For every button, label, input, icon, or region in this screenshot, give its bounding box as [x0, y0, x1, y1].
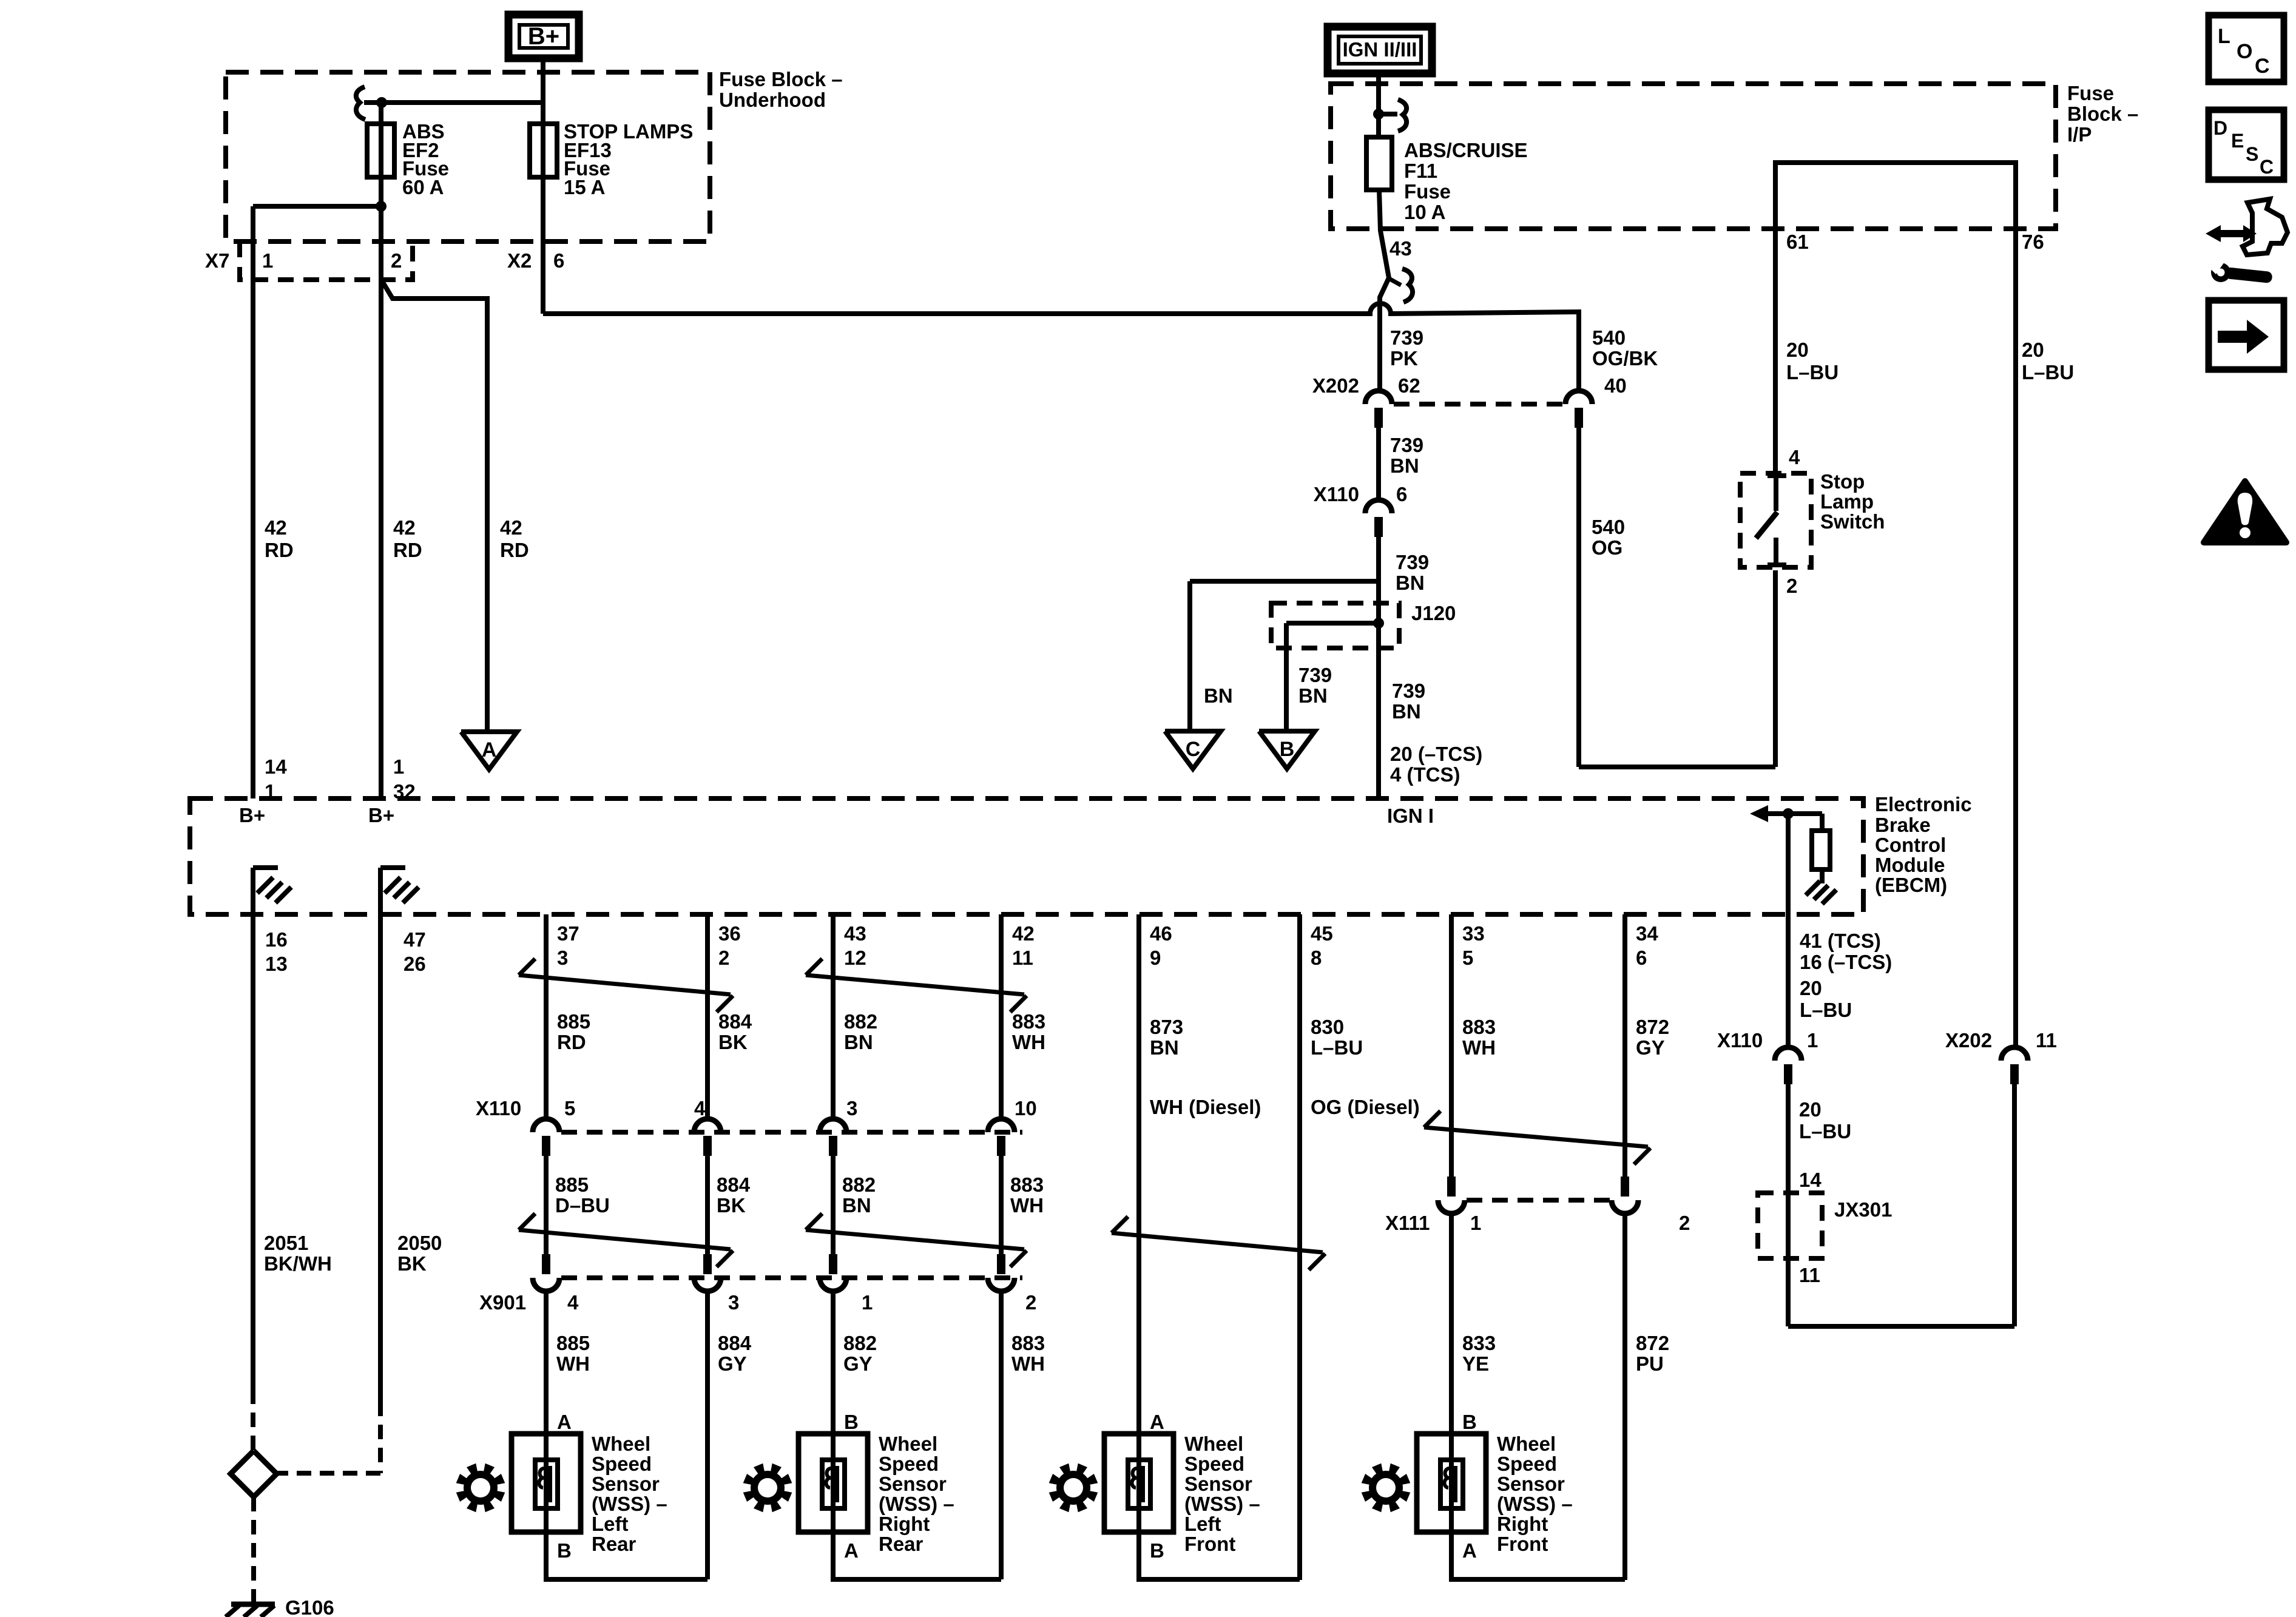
label WH (Diesel) [1150, 1096, 1261, 1118]
svg-text:873: 873 [1150, 1016, 1183, 1038]
svg-text:885: 885 [555, 1173, 589, 1196]
svg-text:E: E [2231, 130, 2244, 152]
svg-text:60 A: 60 A [402, 176, 444, 198]
svg-text:BK: BK [718, 1031, 748, 1053]
svg-text:6: 6 [553, 249, 564, 272]
svg-text:X110: X110 [476, 1097, 521, 1119]
power terminal IGN II/III [1328, 27, 1432, 73]
icon warning triangle [2204, 481, 2286, 542]
label 42 RD wire2 [393, 516, 422, 561]
wire splice to G106 [251, 1497, 256, 1602]
connector X111 pin2 [1612, 1176, 1638, 1214]
svg-text:Wheel: Wheel [1497, 1433, 1556, 1455]
label 885 RD upper [557, 1010, 590, 1053]
label 885 WH lower [556, 1332, 590, 1375]
svg-text:X7: X7 [205, 249, 229, 272]
svg-text:883: 883 [1462, 1016, 1496, 1038]
wire I/P internal bus [1775, 163, 2016, 229]
label 873 BN [1150, 1016, 1183, 1059]
connector X901 at x1373 [820, 1254, 846, 1291]
svg-text:10: 10 [1015, 1097, 1037, 1119]
svg-text:20: 20 [1786, 339, 1809, 361]
label 739 BN lower [1392, 680, 1425, 723]
svg-text:F11: F11 [1404, 160, 1437, 182]
wire branch to pin X7-1 [253, 206, 381, 798]
label EBCM pin 33/5 [1462, 922, 1485, 969]
label X110 pin 10 [1015, 1097, 1037, 1119]
svg-text:76: 76 [2022, 231, 2044, 253]
svg-text:882: 882 [842, 1173, 876, 1196]
svg-text:OG/BK: OG/BK [1592, 347, 1658, 370]
svg-text:C: C [1186, 738, 1201, 761]
label 883 WH upper [1012, 1010, 1045, 1053]
svg-text:B: B [1150, 1539, 1164, 1562]
label 830 L-BU [1311, 1016, 1363, 1059]
label 540 OG/BK [1592, 326, 1658, 370]
svg-text:RD: RD [500, 539, 529, 561]
connector line X110 rear [561, 1130, 1022, 1135]
label 884 GY lower [718, 1332, 752, 1375]
label X110 pin1 row [1717, 1029, 1763, 1052]
EBCM internal ground 16/13 [253, 868, 291, 914]
svg-text:11: 11 [2036, 1029, 2057, 1052]
svg-text:Sensor: Sensor [1497, 1473, 1565, 1495]
wire branch C [1190, 581, 1379, 731]
svg-text:883: 883 [1011, 1332, 1045, 1354]
svg-text:IGN I: IGN I [1387, 805, 1434, 827]
svg-text:OG (Diesel): OG (Diesel) [1311, 1096, 1420, 1118]
bus-bar symbol EF2 [356, 87, 365, 120]
wire rear WSS x1650 mid [999, 1153, 1004, 1258]
svg-text:X110: X110 [1717, 1029, 1763, 1052]
connector X202 pin 62 [1365, 391, 1392, 428]
label IGN I [1387, 805, 1434, 827]
label pin 61 [1786, 231, 1809, 253]
svg-text:4: 4 [1789, 446, 1800, 468]
wire 883 WH riser rear [999, 1291, 1004, 1579]
EBCM internal ground 47/26 [380, 868, 419, 914]
connector line X111 [1467, 1198, 1610, 1203]
wire F11 output with jog [1379, 190, 1389, 390]
svg-text:40: 40 [1604, 374, 1627, 397]
stop lamp switch [1756, 476, 1786, 567]
fuse EF13 15A [530, 124, 557, 177]
splice JX301 box [1758, 1193, 1822, 1258]
svg-text:A: A [482, 738, 497, 761]
label X7 [205, 249, 229, 272]
fuse EF2 60A [367, 124, 394, 177]
label 20 L-BU pin76 [2022, 339, 2074, 383]
svg-text:2: 2 [391, 249, 402, 272]
label EBCM pin 46/9 [1150, 922, 1172, 969]
wire 2051 dashed [251, 1389, 255, 1451]
connector X110 at x1650 [988, 1119, 1015, 1156]
svg-text:C: C [2260, 156, 2274, 178]
svg-text:B+: B+ [528, 23, 559, 50]
svg-text:739: 739 [1392, 680, 1425, 702]
gear icon Left Front [1049, 1463, 1098, 1513]
svg-text:Electronic: Electronic [1875, 793, 1972, 815]
wire 739 BN to IGN I [1376, 537, 1381, 798]
page connector A [461, 732, 517, 769]
junction dot EF2 bus [376, 97, 387, 108]
svg-text:885: 885 [557, 1010, 590, 1033]
svg-text:4: 4 [694, 1097, 706, 1119]
svg-text:830: 830 [1311, 1016, 1344, 1038]
svg-text:Wheel: Wheel [592, 1433, 650, 1455]
svg-text:Switch: Switch [1820, 510, 1885, 533]
wire WSS loop Right Rear [833, 1532, 1001, 1579]
svg-text:X111: X111 [1385, 1212, 1430, 1234]
svg-text:S: S [2246, 143, 2258, 165]
svg-text:2: 2 [1025, 1291, 1036, 1314]
svg-text:42: 42 [265, 516, 287, 539]
svg-text:11: 11 [1799, 1264, 1820, 1286]
connector X901 at x1166 [694, 1254, 721, 1291]
label ABS EF2 Fuse 60 A [402, 120, 449, 198]
label Fuse Block - I/P [2067, 82, 2138, 146]
svg-text:62: 62 [1398, 374, 1420, 397]
svg-text:(WSS) –: (WSS) – [1184, 1493, 1260, 1515]
label 739 BN mid [1396, 551, 1429, 594]
svg-text:RD: RD [265, 539, 294, 561]
label Electronic Brake Control Module (EBCM) [1875, 793, 1972, 896]
label 885 D–BU mid [555, 1173, 610, 1217]
label BN branch C [1204, 684, 1233, 707]
svg-text:Fuse: Fuse [2067, 82, 2114, 104]
connector X110 pin 6 [1365, 500, 1392, 537]
svg-text:A: A [1150, 1411, 1164, 1433]
svg-text:A: A [844, 1539, 859, 1562]
wire 739 BN upper [1376, 428, 1381, 500]
label 872 PU [1636, 1332, 1669, 1375]
wire EF2 to EBCM pin 1/32 [379, 206, 383, 798]
label X110 pin 6 [1396, 483, 1407, 505]
svg-text:4: 4 [567, 1291, 579, 1314]
label 883 WH front [1462, 1016, 1496, 1059]
svg-text:16: 16 [265, 928, 288, 951]
svg-text:Fuse: Fuse [1404, 180, 1451, 203]
wire fuse block pin 76 to X202-11 [2013, 229, 2018, 1047]
svg-text:WH: WH [1462, 1036, 1496, 1059]
svg-text:BN: BN [842, 1194, 871, 1217]
crossover 885/884 lower [519, 1214, 733, 1267]
svg-text:(EBCM): (EBCM) [1875, 874, 1947, 896]
label X110 [1314, 483, 1359, 505]
svg-text:Left: Left [592, 1513, 629, 1535]
wheel speed sensor Right Rear [799, 1411, 954, 1562]
svg-text:Front: Front [1184, 1533, 1235, 1555]
svg-text:Left: Left [1184, 1513, 1221, 1535]
label X202 pin 11 [2036, 1029, 2057, 1052]
gear icon Right Rear [743, 1463, 792, 1513]
svg-text:20: 20 [1800, 977, 1822, 999]
fuse F11 10A [1366, 137, 1392, 190]
label X202 pin 40 [1604, 374, 1627, 397]
svg-text:2: 2 [718, 947, 729, 969]
page connector C [1165, 731, 1221, 769]
bus-bar symbol IGN [1398, 100, 1406, 131]
wheel speed sensor Left Front [1104, 1411, 1260, 1562]
label 882 BN upper [844, 1010, 877, 1053]
svg-text:OG: OG [1592, 536, 1622, 559]
svg-text:12: 12 [844, 947, 866, 969]
svg-text:45: 45 [1311, 922, 1333, 945]
svg-text:3: 3 [728, 1291, 739, 1314]
label Fuse Block - Underhood [719, 68, 843, 111]
svg-text:16 (–TCS): 16 (–TCS) [1800, 951, 1892, 973]
svg-text:IGN II/III: IGN II/III [1343, 38, 1417, 61]
svg-text:3: 3 [557, 947, 568, 969]
label X7 pin 1 [262, 249, 273, 272]
crossover 873/830 diesel [1112, 1217, 1325, 1270]
wire WSS loop Right Front [1451, 1532, 1625, 1579]
wire EF13 to X202-40 [543, 303, 1579, 390]
svg-text:884: 884 [718, 1010, 752, 1033]
svg-text:20: 20 [2022, 339, 2044, 361]
svg-text:B: B [1462, 1411, 1477, 1433]
svg-text:BK/WH: BK/WH [264, 1252, 332, 1275]
svg-text:46: 46 [1150, 922, 1172, 945]
label 884 BK upper [718, 1010, 752, 1053]
svg-text:L: L [2218, 25, 2230, 48]
svg-text:9: 9 [1150, 947, 1161, 969]
svg-text:Rear: Rear [879, 1533, 923, 1555]
wire EBCM pin41 exit [1786, 814, 1791, 1047]
label EBCM pin 34/6 [1636, 922, 1658, 969]
junction dot EF2 output [376, 201, 387, 212]
EBCM internal resistor [1812, 814, 1830, 883]
label EBCM pin 45/8 [1311, 922, 1333, 969]
label X901 pin 2 [1025, 1291, 1036, 1314]
svg-text:Speed: Speed [879, 1453, 939, 1475]
label 882 BN mid [842, 1173, 876, 1217]
svg-text:41 (TCS): 41 (TCS) [1800, 930, 1881, 952]
svg-text:Block –: Block – [2067, 103, 2138, 125]
svg-text:Speed: Speed [592, 1453, 652, 1475]
label 882 GY lower [843, 1332, 877, 1375]
bus-bar symbol 43 [1389, 269, 1413, 302]
label terminal 43 [1389, 237, 1412, 260]
label 883 WH mid [1010, 1173, 1044, 1217]
wire rear WSS x900 upper [544, 914, 549, 1118]
svg-text:1: 1 [262, 249, 273, 272]
label switch pin 4 [1789, 446, 1800, 468]
connector X110 at x900 [533, 1119, 559, 1156]
svg-text:D: D [2213, 117, 2227, 139]
svg-text:L–BU: L–BU [1311, 1036, 1363, 1059]
label 47/26 [403, 928, 426, 975]
crossover 882/883 upper [806, 959, 1027, 1012]
label EBCM pin 42/11 [1012, 922, 1035, 969]
label X110 rear [476, 1097, 521, 1119]
wire stub IGN bus [1379, 112, 1397, 116]
svg-text:C: C [2255, 55, 2270, 78]
label EBCM pin 37/3 [557, 922, 579, 969]
wire 900 X901 to sensor [544, 1291, 549, 1434]
gear icon Right Front [1362, 1463, 1411, 1513]
svg-text:10 A: 10 A [1404, 201, 1445, 223]
label 739 BN upper [1390, 434, 1423, 477]
label pin 1/32 [393, 755, 416, 803]
label EBCM pin 36/2 [718, 922, 741, 969]
svg-text:884: 884 [717, 1173, 751, 1196]
svg-text:8: 8 [1311, 947, 1322, 969]
svg-text:X110: X110 [1314, 483, 1359, 505]
svg-text:B+: B+ [368, 804, 394, 826]
svg-text:1: 1 [1807, 1029, 1818, 1052]
crossover 882/883 lower [806, 1214, 1027, 1267]
label B+ pin b [368, 804, 394, 826]
svg-text:YE: YE [1462, 1352, 1489, 1375]
svg-text:BK: BK [717, 1194, 746, 1217]
svg-text:6: 6 [1636, 947, 1647, 969]
fuse block I/P box [1331, 84, 2056, 229]
svg-text:GY: GY [1636, 1036, 1665, 1059]
svg-text:739: 739 [1390, 434, 1423, 456]
svg-text:540: 540 [1592, 516, 1625, 538]
svg-text:Right: Right [1497, 1513, 1548, 1535]
wire 20 L-BU to JX301 [1788, 1084, 2014, 1326]
svg-text:Module: Module [1875, 854, 1945, 876]
label X111 pin 2 [1679, 1212, 1690, 1234]
svg-text:BN: BN [1392, 700, 1421, 723]
wire 540 OG [1579, 428, 1775, 767]
svg-text:RD: RD [393, 539, 422, 561]
svg-text:G106: G106 [285, 1596, 334, 1617]
wire WSS loop Left Rear [546, 1532, 707, 1579]
svg-text:(WSS) –: (WSS) – [592, 1493, 667, 1515]
label 883 WH lower [1011, 1332, 1045, 1375]
svg-text:X202: X202 [1312, 374, 1359, 397]
svg-text:872: 872 [1636, 1016, 1669, 1038]
label JX301 pin 11 [1799, 1264, 1820, 1286]
page connector B [1259, 731, 1315, 769]
svg-text:BN: BN [1204, 684, 1233, 707]
wire bus to EF2 [364, 100, 543, 105]
svg-text:13: 13 [265, 953, 288, 975]
wire 872 PU [1622, 1214, 1627, 1580]
label X901 pin 4 [567, 1291, 579, 1314]
wire 873 BN [1136, 914, 1141, 1434]
svg-text:Sensor: Sensor [879, 1473, 947, 1495]
svg-text:GY: GY [843, 1352, 873, 1375]
label 16/13 [265, 928, 288, 975]
connector X111 pin1 [1438, 1176, 1465, 1214]
icon DESC box [2209, 110, 2284, 180]
icon arrow box [2209, 300, 2284, 370]
svg-text:BN: BN [1396, 572, 1425, 594]
label 872 GY [1636, 1016, 1669, 1059]
connector X110 at x1166 [694, 1119, 721, 1156]
icon LOC box [2209, 15, 2284, 82]
connector X901 at x1650 [988, 1254, 1015, 1291]
fuse block underhood box [226, 72, 710, 241]
svg-text:739: 739 [1390, 326, 1423, 349]
label 739 BN branch B [1298, 664, 1332, 707]
svg-text:WH: WH [1011, 1352, 1045, 1375]
svg-text:Sensor: Sensor [1184, 1473, 1252, 1495]
wire rear WSS x1166 upper [705, 914, 710, 1118]
crossover 885/884 upper [519, 959, 733, 1012]
svg-text:I/P: I/P [2067, 123, 2092, 146]
svg-text:37: 37 [557, 922, 579, 945]
label X202 pin 62 [1398, 374, 1420, 397]
label X2 [507, 249, 532, 272]
label switch pin 2 [1786, 575, 1797, 597]
svg-text:BN: BN [1390, 454, 1419, 477]
label X901 pin 1 [862, 1291, 873, 1314]
wire 1373 X901 to sensor [831, 1291, 836, 1434]
svg-text:2051: 2051 [264, 1232, 308, 1254]
svg-text:B: B [844, 1411, 859, 1433]
label EBCM pin 41(TCS)/16(-TCS) [1800, 930, 1892, 973]
wire rear WSS x1373 mid [831, 1153, 836, 1258]
label X901 pin 3 [728, 1291, 739, 1314]
label J120 [1411, 602, 1456, 624]
svg-text:4 (TCS): 4 (TCS) [1390, 763, 1460, 786]
svg-text:540: 540 [1592, 326, 1626, 349]
svg-text:A: A [1462, 1539, 1477, 1562]
svg-text:15 A: 15 A [564, 176, 605, 198]
label 20 L-BU tcs [1800, 977, 1852, 1021]
label X110 pin 1 [1807, 1029, 1818, 1052]
junction dot J120 [1373, 618, 1384, 629]
label 42 RD wire1 [265, 516, 294, 561]
svg-text:ABS/CRUISE: ABS/CRUISE [1404, 139, 1528, 161]
label OG (Diesel) [1311, 1096, 1420, 1118]
connector X110 at x1373 [820, 1119, 846, 1156]
gear icon Left Rear [456, 1463, 505, 1513]
wire IGN II/III to F11 [1376, 73, 1381, 137]
svg-text:885: 885 [556, 1332, 590, 1354]
svg-text:X901: X901 [479, 1291, 526, 1314]
label 884 BK mid [717, 1173, 751, 1217]
svg-text:Speed: Speed [1184, 1453, 1244, 1475]
ground G106 [226, 1604, 275, 1617]
svg-text:GY: GY [718, 1352, 747, 1375]
label X901 [479, 1291, 526, 1314]
svg-text:BK: BK [397, 1252, 427, 1275]
label 20 L-BU pin61 [1786, 339, 1838, 383]
svg-text:B: B [1280, 738, 1295, 761]
svg-text:Right: Right [879, 1513, 930, 1535]
junction dot EBCM pin41 [1783, 808, 1794, 819]
label JX301 [1834, 1198, 1892, 1221]
svg-text:Wheel: Wheel [1184, 1433, 1243, 1455]
wheel speed sensor Right Front [1417, 1411, 1573, 1562]
connector X901 at x900 [533, 1254, 559, 1291]
label X202 row2 [1945, 1029, 1992, 1052]
label 2050 BK [397, 1232, 442, 1275]
svg-text:BN: BN [844, 1031, 873, 1053]
svg-text:Stop: Stop [1820, 470, 1865, 493]
svg-text:D–BU: D–BU [555, 1194, 610, 1217]
connector X7 box [240, 241, 413, 280]
svg-text:1: 1 [862, 1291, 873, 1314]
svg-text:BN: BN [1150, 1036, 1179, 1059]
connector line X901 [561, 1275, 1022, 1280]
svg-text:Sensor: Sensor [592, 1473, 660, 1495]
svg-text:PU: PU [1636, 1352, 1664, 1375]
connector X202 pin 40 [1565, 391, 1592, 428]
label 2051 BK/WH [264, 1232, 332, 1275]
svg-text:2050: 2050 [397, 1232, 442, 1254]
svg-text:L–BU: L–BU [1800, 999, 1852, 1021]
svg-text:L–BU: L–BU [1799, 1120, 1851, 1143]
svg-text:42: 42 [1012, 922, 1035, 945]
EBCM arrow to EBCM [1750, 805, 1822, 822]
